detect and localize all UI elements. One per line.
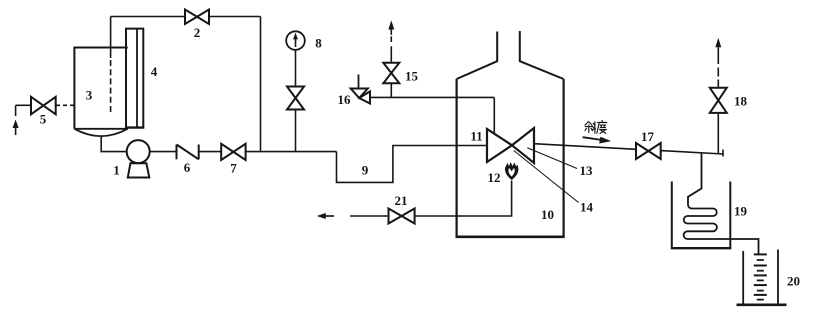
svg-text:2: 2 <box>194 25 201 40</box>
svg-text:9: 9 <box>362 163 369 178</box>
svg-text:6: 6 <box>184 160 191 175</box>
svg-text:15: 15 <box>405 69 419 84</box>
svg-text:12: 12 <box>488 170 501 185</box>
svg-text:21: 21 <box>395 193 408 208</box>
svg-text:8: 8 <box>315 36 322 51</box>
svg-text:20: 20 <box>787 274 800 289</box>
svg-text:10: 10 <box>541 207 554 222</box>
svg-text:18: 18 <box>734 94 748 109</box>
svg-text:14: 14 <box>580 200 594 215</box>
svg-text:7: 7 <box>230 161 237 176</box>
svg-text:3: 3 <box>86 88 93 103</box>
svg-text:11: 11 <box>470 129 482 144</box>
svg-text:19: 19 <box>734 204 748 219</box>
svg-text:17: 17 <box>641 129 655 144</box>
svg-text:5: 5 <box>40 112 47 127</box>
svg-text:16: 16 <box>338 92 352 107</box>
svg-text:13: 13 <box>580 163 594 178</box>
svg-text:4: 4 <box>151 64 158 79</box>
svg-text:1: 1 <box>113 163 120 178</box>
